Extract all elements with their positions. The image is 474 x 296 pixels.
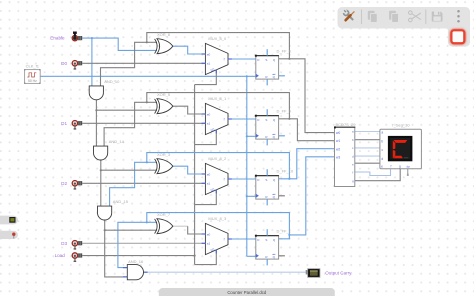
- svg-text:XOR_5: XOR_5: [157, 92, 171, 97]
- svg-text:D0: D0: [61, 61, 67, 66]
- status bar file name: [159, 288, 335, 296]
- wire Enable net: [82, 37, 157, 86]
- wire D0 net: [82, 62, 205, 64]
- wire D3 net: [82, 242, 205, 244]
- wire BCD output a to 7seg: [355, 131, 380, 133]
- wire MUX row 1 output to D_FF D pin: [228, 58, 256, 60]
- toolbar icon tools: [341, 8, 354, 20]
- flip-flop D_FF_10: [255, 168, 294, 205]
- svg-text:f: f: [391, 165, 392, 169]
- svg-text:d: d: [381, 157, 383, 161]
- svg-text:a: a: [381, 130, 383, 134]
- svg-text:f: f: [224, 238, 225, 242]
- wire BCD output e to 7seg: [355, 162, 380, 164]
- toolbar icon paste: [389, 11, 398, 23]
- svg-text:w1: w1: [336, 139, 340, 143]
- svg-text:MUX_8_3: MUX_8_3: [208, 216, 227, 221]
- and gate AND_10: [89, 79, 120, 100]
- flip-flop D_FF_1: [255, 228, 292, 265]
- svg-text:D1: D1: [61, 121, 67, 126]
- input switch D2: [61, 181, 82, 190]
- svg-text:MUX_8_0: MUX_8_0: [208, 36, 227, 41]
- input switch Enable: [50, 32, 82, 41]
- svg-text:AND_15: AND_15: [113, 199, 129, 204]
- clock CLK_f1: [24, 63, 40, 83]
- wire MUX select trunk (Load to all S0): [194, 85, 196, 265]
- input switch D0: [61, 61, 82, 70]
- svg-text:D3: D3: [61, 241, 67, 246]
- 7-segment display 7_Seg_30: [380, 122, 422, 175]
- mux MUX_8_2: [202, 156, 232, 194]
- wire XOR row 2 output to MUX a0: [173, 106, 206, 114]
- wire XOR row 1 output to MUX a0: [173, 46, 206, 54]
- svg-text:AND_10: AND_10: [104, 79, 120, 84]
- svg-text:Load: Load: [55, 253, 66, 258]
- svg-text:a1: a1: [207, 242, 211, 246]
- wire MUX row 4 output to D_FF D pin: [228, 238, 256, 240]
- wire BCD output f to 7seg: [355, 169, 391, 176]
- wire MUX row 2 output to D_FF D pin: [228, 118, 256, 120]
- input switch Load: [55, 253, 83, 262]
- wire Q2 feedback net: [110, 149, 335, 206]
- wire S0 hook row 1: [195, 70, 217, 85]
- wire Load net: [82, 255, 194, 257]
- record button (red square): [451, 30, 464, 43]
- svg-text:dp: dp: [406, 165, 410, 169]
- svg-text:XOR_7: XOR_7: [157, 212, 171, 217]
- svg-text:AND_14: AND_14: [109, 139, 125, 144]
- input switch D1: [61, 121, 82, 130]
- svg-text:a0: a0: [207, 172, 211, 176]
- svg-text:b: b: [381, 139, 383, 143]
- wire Q1 feedback net: [104, 93, 334, 147]
- and gate AND_14: [94, 139, 125, 160]
- and gate AND_15: [98, 199, 129, 220]
- svg-text:f: f: [224, 58, 225, 62]
- svg-text:a1: a1: [207, 182, 211, 186]
- xor gate XOR_7: [155, 212, 173, 234]
- svg-text:w3: w3: [336, 155, 340, 159]
- svg-text:MUX_8_2: MUX_8_2: [208, 156, 227, 161]
- svg-text:D_FF_1: D_FF_1: [277, 228, 292, 233]
- toolbar icon save floppy: [432, 12, 443, 22]
- flip-flop D_FF_9: [255, 108, 292, 145]
- wire clock net (CLK_f1 to all flip-flop clock pins): [40, 75, 256, 256]
- wire BCD output c to 7seg: [355, 147, 380, 149]
- svg-text:f: f: [224, 118, 225, 122]
- mux MUX_8_0: [202, 36, 232, 74]
- svg-text:AND_16: AND_16: [128, 259, 144, 264]
- svg-text:S: S: [265, 118, 267, 122]
- wire BCD output g to 7seg: [355, 169, 400, 181]
- toolbar icon overflow menu: [457, 10, 460, 22]
- svg-text:Enable: Enable: [50, 36, 65, 41]
- svg-text:a0: a0: [207, 112, 211, 116]
- wire S0 hook row 4: [195, 250, 217, 265]
- svg-text:D_FF_6: D_FF_6: [277, 48, 292, 53]
- svg-text:a1: a1: [207, 62, 211, 66]
- mux MUX_8_1: [202, 96, 232, 134]
- svg-text:50 Hz: 50 Hz: [28, 79, 37, 83]
- svg-text:e: e: [381, 165, 383, 169]
- wire AND_10 output net: [95, 100, 157, 146]
- wire AND_14 output net: [100, 160, 157, 206]
- xor gate XOR_6: [155, 32, 173, 54]
- toolbar icon copy: [368, 11, 377, 23]
- wire MUX row 3 output to D_FF D pin: [228, 178, 256, 180]
- wire BCD output d to 7seg: [355, 155, 380, 157]
- wire XOR row 4 output to MUX a0: [173, 226, 206, 234]
- wire S0 hook row 2: [195, 130, 217, 145]
- and gate AND_16: [127, 259, 144, 280]
- svg-text:a0: a0: [207, 52, 211, 56]
- svg-text:f: f: [352, 171, 353, 175]
- toolbar separator 1: [361, 10, 363, 25]
- xor gate XOR_3: [155, 152, 173, 174]
- toolbar separator 2: [425, 10, 427, 25]
- wire Q3 feedback net: [118, 157, 335, 268]
- svg-text:a0: a0: [207, 232, 211, 236]
- wire BCD output b to 7seg: [355, 139, 380, 141]
- svg-text:D_FF_9: D_FF_9: [277, 108, 292, 113]
- svg-text:g: g: [399, 165, 401, 169]
- led Output Carry: [306, 269, 352, 278]
- svg-text:S: S: [265, 58, 267, 62]
- toolbar icon cut scissors: [409, 11, 421, 22]
- svg-text:D_FF_10: D_FF_10: [277, 168, 294, 173]
- svg-text:f: f: [224, 178, 225, 182]
- wire AND_16 output to Output Carry LED: [123, 268, 306, 277]
- svg-text:w0: w0: [336, 131, 340, 135]
- toolbar: [338, 7, 471, 47]
- svg-text:S: S: [265, 238, 267, 242]
- svg-text:D2: D2: [61, 181, 67, 186]
- svg-text:XOR_3: XOR_3: [157, 152, 171, 157]
- wire AND_15 output net: [104, 220, 157, 277]
- wire D1 net: [82, 122, 205, 124]
- svg-text:Output Carry: Output Carry: [325, 271, 352, 276]
- xor gate XOR_5: [155, 92, 173, 114]
- input switch D3: [61, 241, 82, 250]
- svg-text:S: S: [265, 178, 267, 182]
- wire D2 net: [82, 182, 205, 184]
- svg-text:XOR_6: XOR_6: [157, 32, 171, 37]
- wire XOR row 3 output to MUX a0: [173, 166, 206, 174]
- svg-text:MUX_8_1: MUX_8_1: [208, 96, 227, 101]
- component palette item LED: [0, 216, 18, 225]
- svg-text:a1: a1: [207, 122, 211, 126]
- mux MUX_8_3: [202, 216, 232, 254]
- svg-text:w2: w2: [336, 147, 340, 151]
- svg-text:7_Seg_30: 7_Seg_30: [391, 122, 410, 127]
- flip-flop D_FF_6: [255, 48, 292, 85]
- component palette item button: [0, 231, 18, 239]
- wire Q0 feedback net: [101, 33, 335, 133]
- decoder BCD7S_29: [334, 122, 356, 187]
- wire S0 hook row 3: [195, 190, 217, 205]
- svg-text:Counter Parallel.dcd: Counter Parallel.dcd: [227, 290, 267, 295]
- svg-text:CLK_f1: CLK_f1: [26, 63, 40, 68]
- svg-text:BCD7S_29: BCD7S_29: [336, 122, 357, 127]
